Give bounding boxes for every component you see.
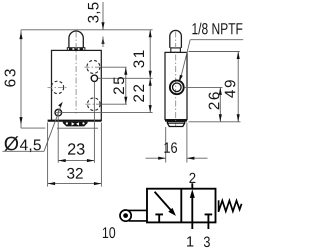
ext line outlet port center [98,77,152,79]
label 63 [5,69,16,86]
arrow 49 top [237,52,240,60]
top extension line [21,29,153,31]
label 3 [204,237,210,248]
outlet port circle [91,75,97,81]
flow path arrow right square [191,194,193,222]
thick bottom edge right view [165,119,187,121]
label 26 [209,92,220,109]
flow arrowhead [190,189,195,198]
dim line 31 22 shared [149,30,151,113]
foot right view [167,122,184,127]
ext 32 left [47,123,49,187]
arrow 63 bottom [19,117,22,125]
label 3,5 [88,2,101,22]
dim line 26 [219,87,221,121]
bottom extension line 63 [21,127,45,129]
foot bracket left view [63,122,88,127]
arrow 16 left [158,157,166,160]
plunger dome right view [170,30,182,47]
left hidden circle [51,81,63,93]
upper hidden circle centerline [85,66,102,68]
dim line 49 [237,52,239,122]
label 10 [103,227,115,238]
mounting hole cross [54,108,62,116]
upper hidden circle [87,60,100,73]
dim tail 3,5 [102,37,104,48]
ext right view bottom [189,121,241,123]
arrow 26 bottom [219,114,222,122]
label 32 [67,168,83,179]
lower hidden circle [88,98,101,111]
valve mid line [180,189,182,223]
leader underline [3,150,45,152]
leader NPTF diagonal [180,40,190,80]
arrow 16 right [187,157,195,160]
blocked port T right square [205,214,213,222]
ext 16 right [186,123,188,163]
arrow 22 bottom [149,105,152,113]
dim line 3,5 upper [102,2,104,30]
dim 16 left tail [146,157,166,159]
port drill line down / 23 right extension [93,82,95,163]
arrow 49 bottom [237,114,240,122]
dim line 25 [125,67,127,104]
arrow 3,5 up [101,37,104,45]
leader arrowhead [58,102,62,107]
arrow 31 bottom [149,71,152,79]
label 16 [164,142,177,153]
roller rod [128,210,147,221]
foot bracket cutouts [66,122,85,125]
arrow 32 right [94,182,102,185]
arrow 32 left [48,182,56,185]
label 25 [113,77,124,94]
arrow 31 top [149,30,152,38]
label 49 [225,80,236,98]
dim line 23 [58,160,94,162]
ext 32 right [100,123,102,187]
ext line lower side-port [102,103,128,105]
spring seat [218,200,220,212]
plunger dome left view [69,31,83,48]
body outline right view [165,52,187,119]
label 31 [133,50,144,67]
spring zigzag [219,201,242,212]
valve body squares [147,189,216,223]
ext right view mid [184,86,222,88]
plunger centerline [75,32,77,114]
centerline right view [175,32,177,128]
ext 16 left [165,127,167,163]
label 2 [189,173,195,183]
diagonal arrowhead [168,208,176,216]
collar knurl marks [69,48,83,50]
dim line 63 [20,30,22,128]
label 1 [187,236,193,246]
ext right view top [189,51,240,53]
arrow 23 left [58,159,65,162]
port inner circle [173,83,182,92]
label diameter 4,5 [4,136,18,150]
diagonal arrow left square [155,192,173,212]
port 1 stub [191,222,193,229]
label 1/8 NPTF [192,23,242,35]
foot bottom mounting line [57,127,98,129]
NPTF leader arrowhead [179,75,183,82]
roller circle [120,210,131,221]
arrow 3,5 down [101,22,104,30]
body outline left view [52,50,102,120]
arrow 23 right [87,159,95,162]
port outer circle [170,80,184,94]
port 2 stub [191,183,193,188]
ext line upper side-port [102,66,127,68]
label 23 [68,143,85,154]
ext line mounting hole [62,112,152,114]
arrow 26 top [219,87,222,95]
ext 23 left [57,117,59,163]
foot mid line [167,122,184,124]
NPTF underline [190,39,243,41]
arrow 25 bottom [124,97,127,105]
dim 16 right tail [187,157,208,159]
roller hub [123,213,128,218]
label 22 [133,85,144,102]
dim line 32 [48,183,102,185]
blocked port T left square [155,214,163,222]
lower hidden circle centerline [86,103,102,105]
left hidden circle centerline [48,86,68,88]
base plate thick bottom [48,120,102,122]
arrow 63 top [19,32,22,39]
port 3 stub [207,222,209,229]
mounting hole circle 4.5 [55,109,62,116]
plunger collar left view [67,48,85,51]
arrow 22 top [149,78,152,86]
leader line diameter 4,5 [44,102,62,151]
arrow 25 top [124,67,127,75]
plunger collar right view [171,48,181,53]
